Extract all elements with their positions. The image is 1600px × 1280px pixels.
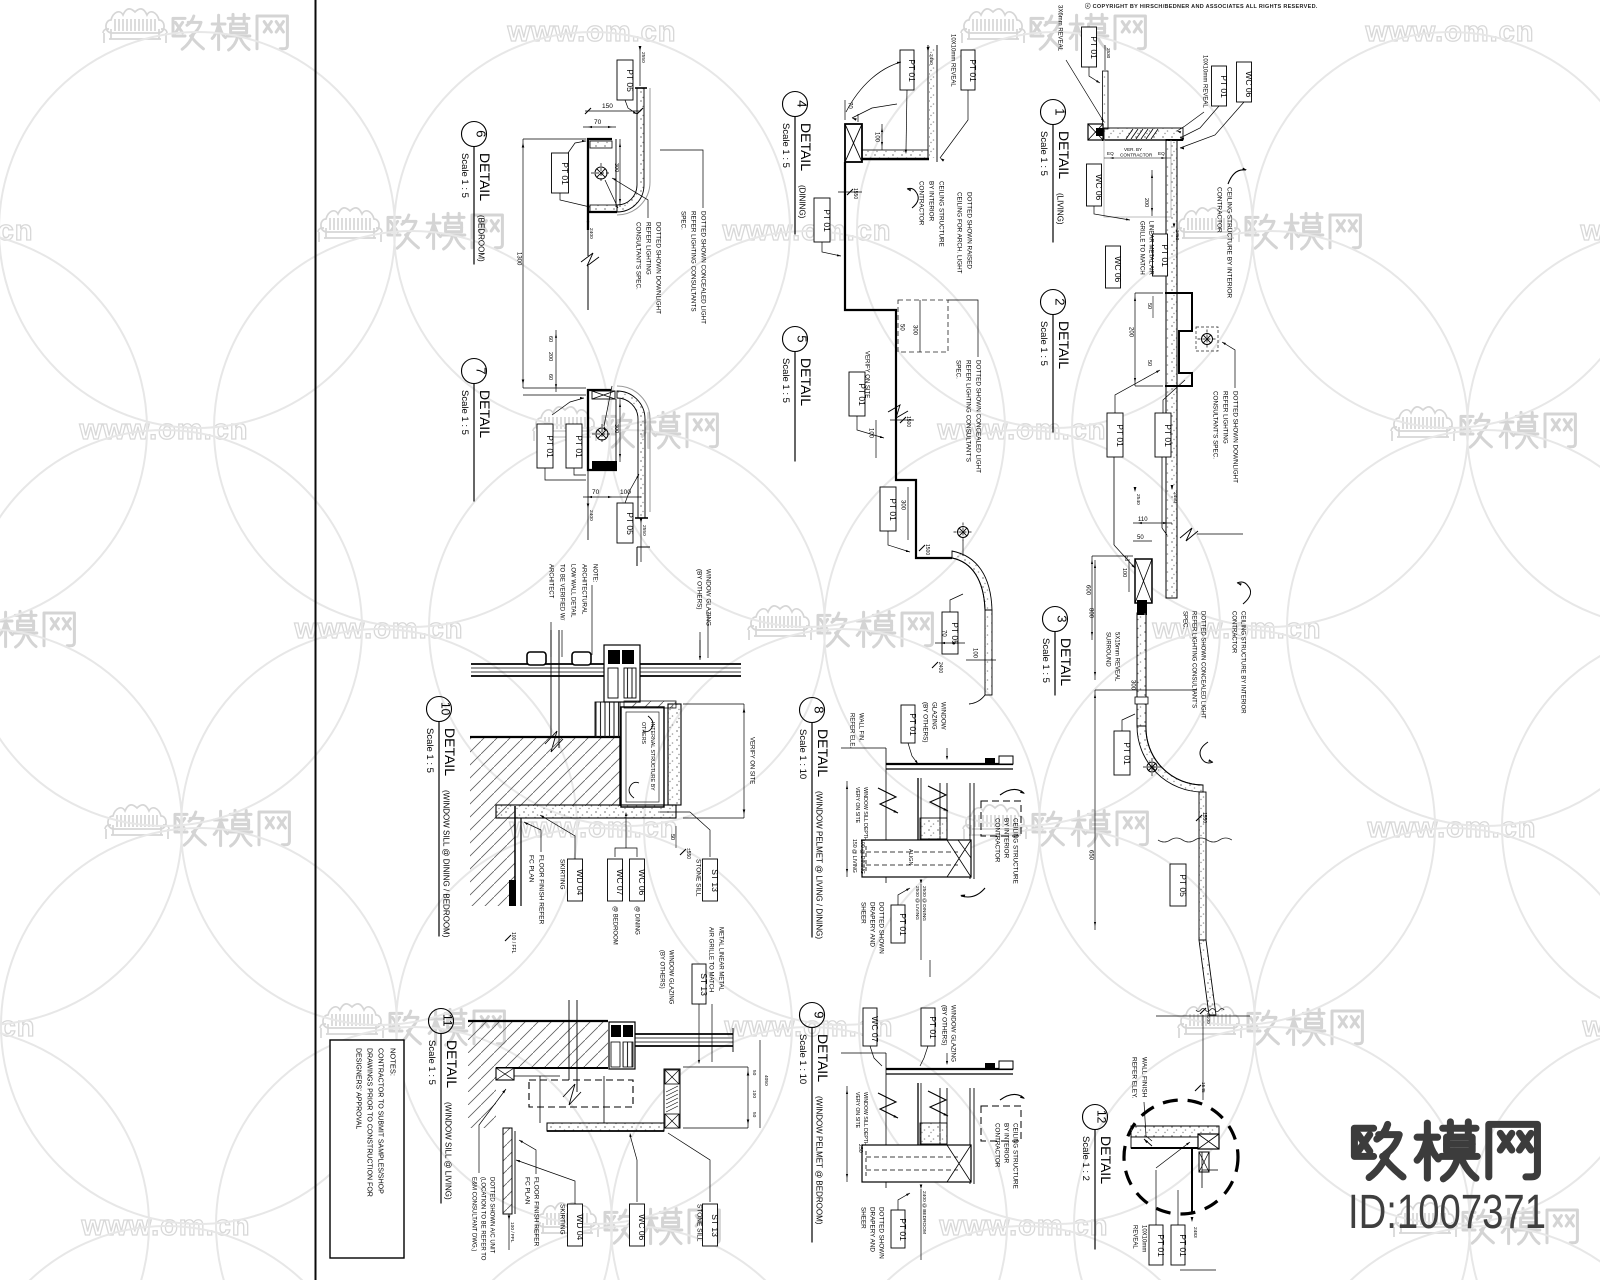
svg-text:WINDOW SILL DEPTH: WINDOW SILL DEPTH — [862, 1092, 868, 1146]
svg-text:Scale 1 : 10: Scale 1 : 10 — [797, 1034, 808, 1084]
svg-text:DOTTED SHOWN CONCEALED LIGHT: DOTTED SHOWN CONCEALED LIGHT — [699, 211, 706, 324]
svg-text:PT 01: PT 01 — [822, 209, 832, 232]
detail 7 callout — [462, 359, 487, 384]
detail 10 internal structure rect — [621, 707, 664, 807]
detail 6 label PT 01 — [552, 153, 569, 193]
detail 9 right jamb — [969, 1088, 971, 1184]
detail 2 label PT 01 b — [1155, 413, 1171, 457]
detail 7 top strip xbox — [592, 391, 615, 399]
svg-text:ST 13: ST 13 — [710, 1214, 720, 1237]
detail 12 xbox b — [1199, 1152, 1209, 1172]
detail 8 zigzag b — [928, 786, 948, 811]
detail 12 wall thin lines — [1201, 1152, 1203, 1188]
svg-text:GLAZING: GLAZING — [930, 702, 937, 730]
detail 5 level 1500 low — [919, 545, 925, 551]
svg-text:CONTRACTOR: CONTRACTOR — [1230, 611, 1236, 654]
svg-text:3: 3 — [1055, 615, 1070, 622]
detail 11 leader WD04 — [516, 1160, 575, 1204]
detail 4 curl arrow — [907, 188, 918, 208]
detail 5 note leader — [948, 300, 978, 357]
detail 1 end block — [1088, 124, 1103, 140]
svg-text:DETAIL: DETAIL — [442, 728, 458, 776]
detail 7 left dim — [555, 330, 557, 392]
svg-text:STONE SILL: STONE SILL — [694, 859, 701, 897]
detail 1 level 2450 — [1173, 224, 1176, 229]
detail 8 zigzag a — [878, 788, 898, 813]
detail 3 curl arrow 2 — [1200, 742, 1213, 763]
svg-text:300: 300 — [613, 163, 619, 172]
detail 3 level 1545 — [1195, 1085, 1201, 1091]
svg-text:WINDOW: WINDOW — [939, 702, 946, 730]
detail 9 glazing lines — [886, 1068, 1013, 1070]
svg-text:LINEAR METAL AIR: LINEAR METAL AIR — [1147, 221, 1153, 276]
detail 5 profile upper — [896, 388, 952, 558]
svg-text:CONTRACTOR: CONTRACTOR — [1120, 153, 1153, 158]
svg-text:WINDOW GLAZING: WINDOW GLAZING — [667, 950, 673, 1005]
svg-text:50: 50 — [1146, 303, 1152, 309]
watermark logo row6 — [535, 1203, 599, 1237]
svg-text:REFER LIGHTING CONSULTANT’S: REFER LIGHTING CONSULTANT’S — [964, 360, 971, 462]
detail 9 wall fin leader — [841, 1052, 886, 1054]
svg-text:2450: 2450 — [928, 54, 934, 65]
detail 9 glazing end blocks — [999, 1061, 1013, 1069]
detail 3 wall band upper — [1137, 613, 1146, 726]
detail 5 leader b — [888, 531, 910, 552]
watermark circle row1 — [0, 231, 147, 627]
detail 10 clip a — [527, 652, 546, 665]
detail 9 curtain box — [862, 1145, 971, 1182]
watermark circle row5 — [216, 1027, 612, 1280]
svg-text:WC 07: WC 07 — [615, 869, 625, 895]
detail 4 wall riser — [927, 45, 929, 158]
svg-text:WD 04: WD 04 — [575, 1214, 585, 1240]
watermark circle row3 — [1039, 629, 1435, 1025]
detail 8 label PT 01 low — [891, 905, 905, 943]
svg-text:60: 60 — [547, 374, 553, 380]
svg-text:ST 13: ST 13 — [710, 869, 720, 892]
svg-text:REFER LIGHTING CONSULTANT’S: REFER LIGHTING CONSULTANT’S — [1190, 611, 1196, 708]
svg-text:10X10mm REVEAL: 10X10mm REVEAL — [949, 34, 955, 87]
detail 10 glazing leader — [699, 640, 701, 660]
watermark circle row6 — [0, 1226, 364, 1280]
detail 7 band caps — [635, 517, 648, 519]
svg-text:ALIGN: ALIGN — [907, 849, 913, 866]
detail 12 leader b — [1177, 1190, 1179, 1225]
detail 10 wall inner edge — [619, 737, 621, 806]
svg-text:2450: 2450 — [1175, 230, 1180, 241]
detail 7 leader PT05 — [625, 474, 639, 503]
svg-text:50: 50 — [1137, 535, 1144, 541]
detail 7 downlight — [596, 428, 608, 440]
detail 8 callout — [800, 698, 825, 723]
detail 1 wall band — [1166, 140, 1177, 598]
detail 11 dim right — [747, 1067, 749, 1128]
detail 9 label WC 07 — [863, 1008, 877, 1046]
svg-text:200: 200 — [547, 352, 553, 361]
svg-text:PT 01: PT 01 — [898, 913, 908, 936]
detail 7 leader a — [545, 468, 586, 480]
svg-text:70: 70 — [594, 119, 602, 126]
svg-text:CEILING STRUCTURE BY INTERIOR: CEILING STRUCTURE BY INTERIOR — [1225, 187, 1232, 298]
detail 9 callout — [800, 1003, 825, 1028]
detail 2 dim lines — [1134, 293, 1136, 386]
detail 3 top xbox — [1135, 559, 1152, 603]
detail 1 leader WC06 — [1180, 102, 1244, 148]
detail 7 channel profile — [588, 390, 617, 470]
svg-text:ST 13: ST 13 — [699, 973, 709, 996]
svg-text:CONTRACTOR: CONTRACTOR — [993, 818, 1000, 863]
svg-text:70: 70 — [940, 630, 946, 637]
watermark circle row5 — [1469, 1027, 1600, 1280]
svg-text:PT 01: PT 01 — [888, 498, 898, 521]
svg-text:WC 06: WC 06 — [1113, 256, 1123, 282]
detail 5 leader PT05 — [950, 594, 963, 612]
detail 9 glazing leader arrow — [946, 1053, 948, 1063]
svg-text:10X10mm REVEAL: 10X10mm REVEAL — [1201, 55, 1207, 108]
watermark circle row6 — [431, 1226, 827, 1280]
svg-text:CONTRACTOR: CONTRACTOR — [1215, 187, 1222, 233]
svg-text:DETAIL: DETAIL — [444, 1040, 460, 1088]
svg-text:DETAIL: DETAIL — [815, 1034, 831, 1082]
svg-text:110: 110 — [1138, 517, 1148, 523]
watermark circle row4 — [1, 828, 397, 1224]
svg-text:ⓒ COPYRIGHT BY HIRSCH/BEDNER A: ⓒ COPYRIGHT BY HIRSCH/BEDNER AND ASSOCIA… — [1085, 2, 1318, 10]
watermark circle row2 — [0, 430, 362, 826]
svg-text:(BY OTHERS): (BY OTHERS) — [658, 950, 664, 989]
svg-text:WALL FIN.: WALL FIN. — [857, 713, 863, 742]
sheet border line — [315, 0, 317, 1280]
watermark circle row5 — [0, 1027, 149, 1280]
svg-text:GRILLE TO MATCH: GRILLE TO MATCH — [1138, 221, 1144, 275]
svg-text:1: 1 — [1053, 108, 1068, 115]
detail 10 dim right — [743, 704, 745, 818]
detail 8 speckle band — [920, 818, 947, 839]
svg-text:100 @ DINING: 100 @ DINING — [859, 839, 865, 874]
detail 10 glazing lines — [471, 663, 741, 665]
svg-text:CEILING STRUCTURE: CEILING STRUCTURE — [1011, 1123, 1018, 1189]
detail 10 sill hatch strip — [624, 701, 676, 708]
watermark circle row5 — [1074, 1027, 1470, 1280]
detail 12 label PT 01 b — [1171, 1225, 1185, 1265]
detail 1 reveal leader — [1066, 60, 1104, 122]
detail 7 label PT 01 a — [537, 424, 553, 468]
detail 10 clip b — [572, 652, 591, 665]
detail 1 level 2530 — [1104, 45, 1106, 70]
detail 6 note leader — [660, 150, 703, 208]
svg-text:DOTTED SHOWN DOWNLIGHT: DOTTED SHOWN DOWNLIGHT — [1231, 391, 1238, 483]
svg-text:VERIFY ON SITE: VERIFY ON SITE — [748, 737, 754, 784]
svg-text:DESIGNERS’ APPROVAL: DESIGNERS’ APPROVAL — [355, 1048, 362, 1129]
svg-text:ARCHITECTURAL: ARCHITECTURAL — [580, 564, 586, 615]
watermark logo row5 — [1178, 1004, 1242, 1038]
detail 7 leader b — [574, 468, 586, 475]
svg-text:PT 01: PT 01 — [908, 713, 918, 736]
svg-text:(BEDROOM): (BEDROOM) — [477, 215, 486, 262]
svg-text:Scale 1 : 5: Scale 1 : 5 — [426, 1040, 437, 1085]
svg-text:100: 100 — [867, 428, 873, 439]
detail 10 level 550 — [680, 849, 686, 855]
svg-text:(BY OTHERS): (BY OTHERS) — [921, 702, 928, 742]
detail 10 leader floor — [524, 822, 541, 852]
svg-text:PT 01: PT 01 — [1163, 424, 1173, 447]
detail 4 label PT 01 top a — [900, 50, 914, 90]
watermark circle row3 — [0, 629, 182, 1025]
svg-text:20: 20 — [1124, 556, 1129, 562]
svg-text:@ DINING: @ DINING — [633, 906, 639, 935]
svg-text:WC 06: WC 06 — [637, 869, 647, 895]
detail 12 level — [1191, 1217, 1194, 1222]
svg-text:100: 100 — [620, 489, 631, 496]
svg-text:60: 60 — [547, 336, 553, 342]
svg-text:CEILING STRUCTURE: CEILING STRUCTURE — [1011, 818, 1018, 884]
svg-text:DETAIL: DETAIL — [1058, 638, 1074, 686]
svg-text:2: 2 — [1053, 298, 1068, 305]
detail 3 callout — [1043, 607, 1068, 632]
detail 4 label PT 01 — [814, 198, 830, 242]
detail 6 label PT 05 top — [617, 60, 633, 100]
detail 10 level ffl — [505, 935, 511, 941]
detail 11 ac dashed rect — [529, 1080, 633, 1107]
svg-text:BY INTERIOR: BY INTERIOR — [927, 181, 934, 222]
svg-text:FC PLAN: FC PLAN — [527, 855, 534, 883]
svg-text:FC PLAN: FC PLAN — [523, 1177, 530, 1205]
svg-text:DRAWINGS PRIOR TO CONSTRUCTION: DRAWINGS PRIOR TO CONSTRUCTION FOR — [366, 1048, 373, 1197]
watermark circle row2 — [1287, 430, 1600, 826]
detail 3 downlight — [1147, 762, 1157, 772]
detail 10 leader WD04 — [540, 815, 575, 859]
svg-text:100 / FFL: 100 / FFL — [509, 1222, 515, 1243]
detail 2 level 2540 — [1113, 457, 1115, 545]
svg-text:300: 300 — [613, 424, 619, 433]
detail 6 leader PT05 — [625, 100, 637, 114]
watermark circle row1 — [1072, 231, 1468, 627]
detail 11 recess top — [496, 1067, 608, 1069]
detail 4 leader arc — [846, 62, 901, 112]
svg-text:600: 600 — [1084, 585, 1090, 596]
svg-text:VER. BY: VER. BY — [1124, 147, 1142, 152]
detail 7 label PT 01 b — [566, 424, 582, 468]
detail 3 bottom line — [1156, 1015, 1250, 1017]
detail 4 leader top a — [906, 90, 907, 150]
svg-text:(WINDOW PELMET @ LIVING / DINI: (WINDOW PELMET @ LIVING / DINING) — [815, 791, 824, 939]
detail 12 xbox a — [1198, 1134, 1219, 1149]
detail 8 pocket lines — [917, 778, 919, 840]
detail 6 level 2400 — [587, 222, 590, 227]
svg-text:150 @ LIVING: 150 @ LIVING — [851, 839, 857, 873]
detail 11 label ST 13 — [703, 1204, 718, 1246]
detail 6 leader PT01 — [568, 141, 586, 153]
svg-text:NOTES:: NOTES: — [389, 1048, 398, 1076]
detail 11 label WC 06 — [630, 1204, 645, 1246]
watermark circle row1 — [609, 231, 1005, 627]
svg-text:WALL FINISH: WALL FINISH — [1140, 1057, 1147, 1098]
svg-text:650: 650 — [1087, 850, 1093, 861]
svg-text:50: 50 — [669, 834, 675, 840]
detail 8 dashed rect — [981, 801, 1021, 836]
svg-text:6: 6 — [474, 130, 489, 137]
detail 12 leader a — [1155, 1170, 1157, 1225]
svg-text:2400: 2400 — [588, 510, 594, 521]
svg-text:50: 50 — [1146, 360, 1152, 366]
detail 4 callout — [783, 92, 808, 117]
watermark logo row2 — [533, 407, 597, 441]
svg-text:BY INTERIOR: BY INTERIOR — [1002, 1123, 1009, 1164]
detail 6 dim 70 — [583, 126, 616, 128]
svg-text:SURROUND: SURROUND — [1104, 632, 1110, 667]
detail 9 mid jamb — [939, 1088, 941, 1144]
svg-text:2550: 2550 — [641, 525, 647, 536]
svg-text:REFER LIGHTING CONSULTANTS: REFER LIGHTING CONSULTANTS — [689, 211, 696, 312]
watermark circle row3 — [1502, 629, 1600, 1025]
detail 6 dim 150 — [585, 110, 641, 112]
svg-text:DETAIL: DETAIL — [477, 390, 493, 438]
detail 12 ceiling speckle band — [1131, 1126, 1219, 1137]
detail 1 callout — [1041, 100, 1066, 125]
notes box frame — [330, 1040, 404, 1258]
svg-text:8: 8 — [812, 706, 827, 713]
watermark logo row4 — [963, 805, 1027, 839]
watermark circle row4 — [396, 828, 792, 1224]
svg-text:1500: 1500 — [905, 416, 911, 427]
svg-text:Scale 1 : 5: Scale 1 : 5 — [459, 153, 470, 198]
svg-text:150: 150 — [602, 103, 613, 110]
svg-text:WC 06: WC 06 — [1244, 71, 1254, 97]
svg-text:(LOCATION TO BE REFER TO: (LOCATION TO BE REFER TO — [479, 1177, 485, 1261]
svg-text:FLOOR FINISH REFER: FLOOR FINISH REFER — [537, 855, 544, 925]
detail 6 dim 1300 line — [522, 139, 524, 388]
watermark circle row2 — [824, 430, 1220, 826]
svg-text:PT 01: PT 01 — [907, 59, 917, 82]
svg-text:DETAIL: DETAIL — [798, 358, 814, 406]
detail 3 dim 650 — [1094, 690, 1096, 930]
detail 7 downlight leader — [604, 386, 612, 426]
detail 10 mullion — [604, 645, 640, 702]
svg-text:(WINDOW SILL @ DINING / BEDROO: (WINDOW SILL @ DINING / BEDROOM) — [442, 790, 451, 938]
svg-text:70: 70 — [592, 489, 600, 496]
svg-text:Scale 1 : 5: Scale 1 : 5 — [1038, 131, 1049, 176]
svg-text:CONTRACTOR TO SUBMIT SAMPLES/S: CONTRACTOR TO SUBMIT SAMPLES/SHOP — [377, 1048, 384, 1194]
svg-text:EQ: EQ — [1107, 151, 1114, 156]
detail 10 leader WC bracket — [615, 848, 637, 857]
svg-text:DOTTED SHOWN: DOTTED SHOWN — [877, 1207, 884, 1259]
detail 6 downlight leader — [560, 193, 590, 207]
detail 3 cove inner — [1146, 726, 1203, 785]
detail 6 inner face line — [615, 139, 617, 207]
detail 6 channel profile — [588, 139, 612, 230]
svg-text:PT 05: PT 05 — [950, 622, 960, 645]
svg-text:PT 01: PT 01 — [560, 162, 570, 185]
svg-text:1500: 1500 — [924, 544, 930, 555]
detail 10 stone facing band — [668, 704, 681, 805]
detail 1 label WC 06 grille — [1106, 246, 1121, 288]
detail 10 break lines — [550, 630, 552, 736]
watermark circle row4 — [1254, 828, 1600, 1224]
detail 6 downlight — [595, 167, 607, 179]
detail 7 wall band — [617, 391, 645, 518]
svg-text:PT 01: PT 01 — [928, 1016, 938, 1039]
detail 8 level marks — [920, 880, 923, 885]
svg-text:PT 01: PT 01 — [898, 1218, 908, 1241]
detail 1 eq dim — [1104, 157, 1171, 159]
detail 4 xbox wall — [845, 124, 862, 162]
detail 5 level 1500 — [900, 417, 906, 423]
detail 12 label PT 01 a — [1149, 1225, 1163, 1265]
svg-text:PT 01: PT 01 — [1089, 36, 1099, 59]
svg-text:SPEC.: SPEC. — [679, 211, 686, 230]
detail 6 level 2550 — [639, 46, 641, 86]
svg-text:300: 300 — [1129, 680, 1135, 691]
detail 5 dashed slot — [898, 300, 948, 352]
detail 5 cove band — [952, 551, 992, 610]
detail 6 lower soffit strip — [590, 205, 617, 212]
detail 4 level 2450 top — [927, 47, 930, 52]
svg-text:PT 05: PT 05 — [625, 512, 635, 535]
svg-text:50: 50 — [751, 1112, 757, 1118]
svg-text:Scale 1 : 5: Scale 1 : 5 — [780, 358, 791, 403]
svg-text:2500 @ DINING: 2500 @ DINING — [921, 886, 927, 921]
detail 9 zigzag a — [878, 1093, 898, 1118]
svg-text:PT 01: PT 01 — [574, 435, 584, 458]
svg-text:ID:1007371: ID:1007371 — [1348, 1186, 1546, 1239]
svg-text:PT 01: PT 01 — [857, 383, 867, 406]
detail 3 reveal notch — [1135, 697, 1148, 704]
svg-text:3X6mm REVEAL: 3X6mm REVEAL — [1056, 5, 1062, 52]
watermark logo row5 — [320, 1004, 384, 1038]
svg-text:(LIVING): (LIVING) — [1056, 193, 1065, 225]
detail 3 quarter cove band — [1137, 726, 1203, 792]
detail 8 dim line left — [846, 781, 848, 877]
svg-text:CEILING FOR ARCH. LIGHT: CEILING FOR ARCH. LIGHT — [955, 192, 962, 274]
svg-text:SKIRTING: SKIRTING — [558, 859, 565, 890]
detail 7 inner face line — [615, 399, 617, 462]
svg-text:SPEC.: SPEC. — [1181, 611, 1187, 629]
svg-text:12: 12 — [1095, 1110, 1109, 1124]
svg-text:(DINING): (DINING) — [798, 185, 807, 219]
detail 9 leader low — [898, 1193, 910, 1210]
detail 11 stone sill band — [547, 1123, 664, 1131]
detail 8 curl b — [961, 888, 985, 897]
svg-text:Scale 1 : 5: Scale 1 : 5 — [424, 728, 435, 773]
watermark circle row6 — [826, 1226, 1222, 1280]
detail 6 upper soffit strip — [590, 141, 612, 148]
detail 11 floor leader — [519, 1140, 536, 1174]
detail 10 label WC 06 — [630, 859, 645, 901]
detail 1 label PT 01 mid — [1153, 234, 1168, 276]
detail 1 label PT 01 right — [1212, 66, 1227, 106]
detail 5 label PT 05 — [942, 612, 958, 654]
svg-text:1300: 1300 — [515, 252, 521, 266]
detail 2 note leader — [1222, 342, 1235, 388]
detail 9 curtain dashes — [866, 1156, 958, 1158]
svg-text:200: 200 — [1143, 198, 1149, 207]
svg-text:PT 01: PT 01 — [545, 435, 555, 458]
svg-text:REFER ELE.: REFER ELE. — [848, 713, 854, 748]
detail 1 slab heavy — [1102, 139, 1183, 141]
detail 6 note leader 2 — [612, 178, 648, 218]
detail 8 leader low — [898, 888, 910, 905]
detail 1 curl arrow — [1228, 170, 1246, 184]
site logo glyphs — [1354, 1122, 1537, 1179]
svg-text:(BY OTHERS): (BY OTHERS) — [940, 1005, 947, 1045]
svg-text:DETAIL: DETAIL — [477, 153, 493, 201]
detail 8 curtain dashes — [866, 851, 958, 853]
svg-text:WC 07: WC 07 — [870, 1016, 880, 1042]
detail 3 dim 800 — [1094, 560, 1096, 680]
detail 8 curl — [1000, 789, 1024, 795]
detail 1 leader reveal right — [1177, 112, 1204, 131]
detail 4 ceiling heavy line — [862, 158, 929, 160]
svg-text:TO BE VERIFIED W/: TO BE VERIFIED W/ — [558, 564, 564, 621]
